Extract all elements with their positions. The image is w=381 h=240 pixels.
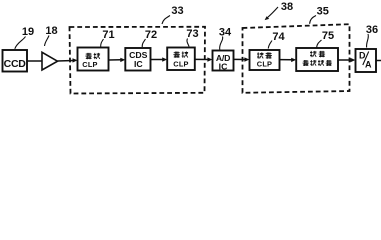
glyphs 模拟 — [85, 53, 92, 59]
svg-text:72: 72 — [145, 29, 157, 41]
svg-text:IC: IC — [134, 59, 143, 69]
leader 75 — [317, 40, 322, 48]
svg-text:73: 73 — [186, 28, 198, 40]
leader 35 — [310, 16, 316, 24]
dashed block 33 — [70, 27, 206, 94]
box CCD (19) — [3, 50, 28, 72]
glyphs 数字 — [257, 52, 263, 58]
leader 38 with arrow — [267, 7, 278, 18]
svg-text:34: 34 — [219, 27, 232, 39]
wire AD to 74 with arrow — [234, 58, 246, 60]
svg-text:74: 74 — [272, 31, 285, 43]
box 71 analog CLP — [78, 48, 109, 71]
svg-text:19: 19 — [22, 26, 34, 38]
box 34 A/D IC — [213, 51, 234, 72]
wire 71 to 72 with arrow — [109, 59, 122, 61]
box 74 digital CLP — [250, 50, 280, 70]
svg-text:38: 38 — [281, 1, 293, 13]
svg-text:35: 35 — [317, 6, 329, 18]
output wire from DA — [376, 60, 381, 62]
leader 72 — [142, 39, 145, 47]
svg-text:CCD: CCD — [4, 58, 27, 70]
wire 72 to 73 with arrow — [151, 59, 164, 61]
box 73 analog CLP — [167, 48, 195, 71]
svg-text:IC: IC — [219, 62, 228, 72]
box 75 post digital processing — [296, 48, 338, 71]
glyphs 数字处理 — [303, 60, 309, 66]
svg-text:71: 71 — [102, 29, 114, 41]
amplifier 18 (triangle) — [42, 52, 58, 70]
leader 19 — [15, 37, 26, 49]
leader 73 — [187, 39, 189, 47]
box 36 D/A — [356, 49, 377, 72]
svg-text:A: A — [365, 60, 372, 70]
leader 34 — [220, 37, 223, 50]
glyphs 模拟 — [173, 52, 180, 58]
svg-text:75: 75 — [322, 30, 334, 42]
wire 75 to DA with arrow — [338, 59, 352, 61]
leader 71 — [101, 39, 104, 47]
box 72 CDS IC — [125, 48, 150, 71]
svg-text:CLP: CLP — [82, 60, 97, 69]
leader 18 — [45, 36, 50, 47]
leader 36 — [367, 34, 369, 48]
svg-text:18: 18 — [45, 25, 57, 37]
svg-text:CLP: CLP — [257, 59, 272, 68]
svg-text:33: 33 — [171, 5, 183, 17]
wire 74 to 75 with arrow — [280, 59, 293, 61]
leader 33 — [162, 16, 170, 25]
glyphs 后置 — [310, 51, 316, 57]
wire amp to box 71 with arrow — [58, 60, 74, 63]
dashed block 38 — [243, 24, 350, 93]
wire 73 to AD with arrow — [195, 58, 209, 60]
wire CCD to amp — [27, 60, 42, 62]
svg-text:CLP: CLP — [173, 60, 188, 69]
leader 74 — [268, 41, 272, 49]
